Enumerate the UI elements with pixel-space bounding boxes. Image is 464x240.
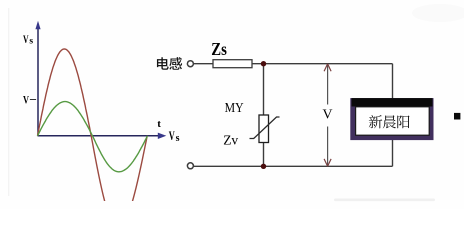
svg-text:MY: MY [225,100,244,115]
svg-text:V: V [169,129,175,143]
svg-text:s: s [176,133,180,144]
svg-text:V: V [23,93,29,107]
svg-text:Zv: Zv [223,132,238,147]
svg-text:t: t [157,118,161,130]
svg-text:s: s [29,36,33,46]
svg-text:V: V [323,107,333,122]
svg-text:V: V [23,32,29,46]
svg-text:Zs: Zs [211,39,227,59]
svg-text:–: – [29,91,37,105]
